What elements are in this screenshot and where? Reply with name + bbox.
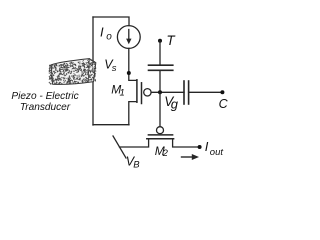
wire Vg down to M2 gate — [159, 92, 161, 126]
wire capacitor to node C — [189, 91, 223, 93]
wire capacitor bottom to node Vg — [159, 70, 161, 92]
svg-text:I: I — [205, 139, 209, 154]
svg-text:o: o — [106, 31, 112, 42]
wire M2 source leg to VB — [120, 139, 149, 147]
wire left branch (piezo branch) — [92, 17, 94, 125]
svg-text:out: out — [210, 147, 224, 158]
svg-text:Piezo - Electric: Piezo - Electric — [11, 91, 78, 102]
transistor M2 gate bar — [148, 134, 172, 136]
transistor M2 gate bubble — [157, 127, 164, 134]
node output dot — [198, 145, 202, 149]
wire top rail — [93, 17, 129, 26]
terminal VB slash — [113, 136, 126, 158]
node T — [158, 39, 162, 43]
wire current source to V_s and M1 drain — [129, 48, 137, 80]
node Vg junction — [158, 90, 162, 94]
svg-text:C: C — [219, 97, 229, 111]
wire bottom return — [93, 124, 129, 126]
node Vs junction — [127, 71, 131, 75]
capacitor C plates — [184, 81, 189, 104]
capacitor Cgs plates — [149, 65, 173, 70]
svg-text:2: 2 — [162, 148, 169, 159]
piezo-electric transducer slab — [49, 59, 96, 85]
arrow I_out — [182, 154, 200, 160]
svg-text:g: g — [171, 96, 179, 111]
svg-text:T: T — [166, 33, 176, 48]
svg-text:I: I — [100, 24, 104, 39]
transistor M1 gate bar — [141, 83, 143, 104]
wire M1 bubble to node Vg and to capacitor — [151, 91, 184, 93]
current source I_o — [117, 26, 140, 49]
transistor M2 channel bar — [147, 138, 174, 140]
node C — [220, 90, 224, 94]
wire M1 source — [129, 102, 137, 125]
wire T to capacitor top — [159, 41, 161, 65]
svg-text:Transducer: Transducer — [20, 102, 71, 113]
wire M2 drain leg to output node — [173, 139, 200, 147]
svg-text:B: B — [133, 159, 140, 170]
transistor M1 gate bubble — [144, 89, 151, 96]
transistor M1 channel bar — [136, 80, 138, 102]
svg-text:1: 1 — [120, 88, 125, 99]
svg-text:s: s — [112, 63, 117, 74]
